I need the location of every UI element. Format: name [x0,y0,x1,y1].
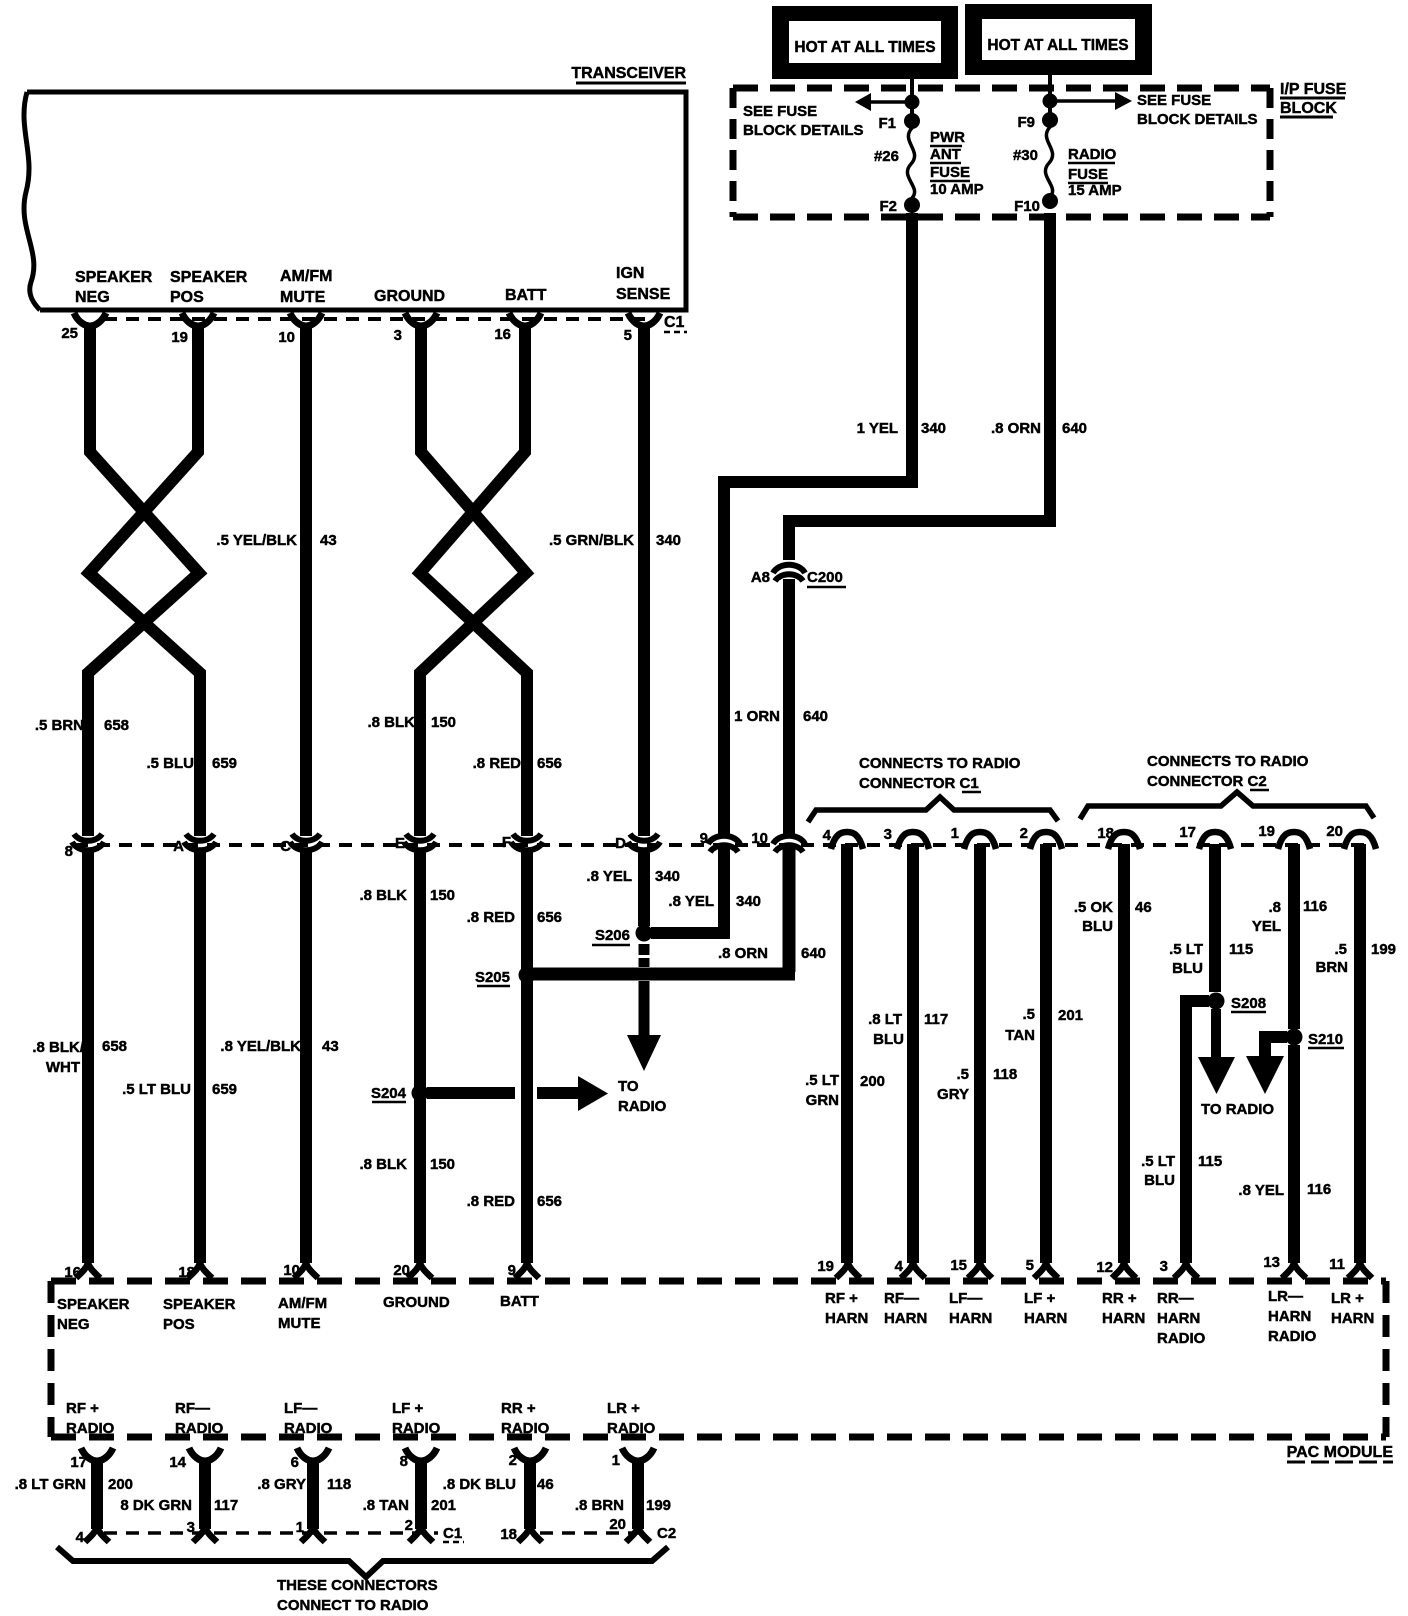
wire am/fm mute 43 (pin10) [300,327,312,836]
svg-text:.5 BLU: .5 BLU [146,755,194,772]
svg-text:S210: S210 [1308,1031,1343,1048]
svg-text:2: 2 [1020,825,1028,842]
svg-text:RADIO: RADIO [1068,146,1117,163]
svg-text:CONNECTOR C1: CONNECTOR C1 [859,775,979,792]
label .5 YEL/BLK 43 [216,532,336,549]
wire .8 BLK/WHT 658 (pin8 to PAC 16) [82,852,94,1263]
label .8 BRN 199 [575,1497,671,1514]
svg-text:HARN: HARN [825,1310,868,1327]
svg-text:5: 5 [1026,1257,1034,1274]
svg-text:.5: .5 [1022,1006,1035,1023]
label LR + HARN [1331,1290,1374,1327]
label CONNECTS TO RADIO CONNECTOR C2 [1147,753,1309,790]
svg-text:HOT AT ALL TIMES: HOT AT ALL TIMES [987,37,1128,54]
label SPEAKER NEG [75,269,153,306]
connector pin 16 [494,313,541,343]
svg-text:.5 LT: .5 LT [1169,941,1203,958]
wire from HOT box to F1 [910,79,914,120]
label .5 OK BLU 46 [1074,899,1152,935]
wire .5 LT BLU 115 (pin17 to S208) [1209,844,1221,992]
svg-text:LR—: LR— [1268,1288,1303,1305]
wire .5 BRN 199 (pin20 to 11) [1354,844,1366,1263]
svg-text:659: 659 [212,1081,237,1098]
label .8 YEL 340 (pin9 wire) [668,893,761,910]
label TO RADIO (shared) [618,1078,667,1115]
wire .8 ORN 640 (F10 to C200) [789,213,1050,560]
svg-text:.5 LT: .5 LT [1141,1153,1175,1170]
label TO RADIO (C2 arrows) [1201,1101,1274,1118]
svg-text:BLOCK: BLOCK [1280,100,1337,117]
svg-text:S208: S208 [1231,995,1266,1012]
connector C200 pin A8 [751,565,846,587]
junction dot (right arrow) [1043,94,1058,109]
svg-text:BLOCK DETAILS: BLOCK DETAILS [1137,111,1258,128]
svg-text:E: E [395,835,405,852]
svg-text:C: C [280,838,291,855]
svg-text:340: 340 [656,532,681,549]
svg-text:117: 117 [924,1011,948,1028]
connector pin C [280,834,322,855]
svg-text:11: 11 [1329,1256,1345,1273]
svg-text:SEE FUSE: SEE FUSE [743,103,817,120]
label RR + HARN [1102,1290,1145,1327]
svg-text:13: 13 [1263,1254,1280,1271]
label .5 BRN 199 [1316,941,1397,976]
svg-text:.5 LT: .5 LT [805,1072,839,1089]
arrow TO RADIO (down from S208) [1198,1009,1235,1094]
svg-text:RF—: RF— [175,1400,210,1417]
svg-text:GROUND: GROUND [374,288,445,305]
svg-text:10: 10 [751,830,768,847]
svg-text:115: 115 [1229,941,1253,958]
label .8 YEL 116 (lower) [1238,1181,1331,1199]
svg-text:.8 RED: .8 RED [467,909,516,926]
svg-text:RF +: RF + [66,1400,99,1417]
svg-text:2: 2 [509,1452,517,1469]
svg-text:BLU: BLU [873,1031,904,1048]
connector pin F [502,834,543,851]
brace C2 [1080,792,1374,819]
svg-text:.5: .5 [956,1066,969,1083]
connector pin 10 [278,313,322,346]
wire speaker pos 659 (pin19, crossing) [89,327,200,836]
svg-text:TRANSCEIVER: TRANSCEIVER [571,65,686,82]
svg-text:.8 BLK: .8 BLK [359,887,407,904]
connector PAC pin 3 [1160,1258,1198,1278]
label THESE CONNECTORS CONNECT TO RADIO [277,1577,438,1614]
wire S205 branch to pin 10 [533,968,795,981]
svg-text:.5 BRN: .5 BRN [35,717,84,734]
dashed line radio connector C2 [540,1531,650,1535]
svg-text:FUSE: FUSE [930,164,970,181]
wire S206 branch to pin 9 [651,848,724,933]
connector pin 19 (C2) [1258,823,1310,849]
svg-text:BLU: BLU [1082,918,1113,935]
svg-text:201: 201 [431,1497,456,1514]
label .5 GRY 118 [937,1066,1017,1103]
label SEE FUSE BLOCK DETAILS (right) [1137,92,1258,128]
label .8 YEL/BLK 43 [220,1038,338,1055]
svg-text:MUTE: MUTE [278,1315,321,1332]
svg-text:F: F [502,834,511,851]
wire .8 BLK 150 (pinE to PAC 20) [414,852,426,1263]
label .5 LT BLU 115 (upper) [1169,941,1253,977]
svg-text:340: 340 [655,868,680,885]
connector PAC pin 16 [64,1263,100,1281]
label .8 BLK 150 (lower) [359,1156,455,1173]
svg-text:18: 18 [178,1264,195,1281]
svg-text:16: 16 [64,1264,81,1281]
terminal F2 [879,197,920,215]
svg-text:CONNECTS TO RADIO: CONNECTS TO RADIO [1147,753,1309,770]
svg-text:116: 116 [1303,898,1327,915]
svg-text:115: 115 [1198,1153,1222,1170]
svg-text:8: 8 [65,843,73,860]
svg-text:RADIO: RADIO [392,1420,441,1437]
svg-text:CONNECT TO RADIO: CONNECT TO RADIO [277,1597,429,1614]
svg-text:2: 2 [405,1517,413,1534]
svg-text:NEG: NEG [57,1316,90,1333]
label .8 RED 656 [473,755,562,772]
svg-text:4: 4 [76,1529,85,1546]
connector row 2 dashed line [75,843,1374,847]
label .8 LT BLU 117 [868,1011,948,1048]
label LF- HARN [949,1290,992,1327]
svg-text:HARN: HARN [1157,1310,1200,1327]
svg-text:PWR: PWR [930,129,965,146]
svg-text:HARN: HARN [884,1310,927,1327]
svg-text:25: 25 [61,325,78,342]
connector pin 5 [624,313,660,344]
svg-text:656: 656 [537,755,562,772]
wire .8 YEL 340 (pinD to S206) [638,852,650,926]
svg-text:.8 ORN: .8 ORN [991,420,1041,437]
svg-text:GRN: GRN [806,1092,839,1109]
fuse #26 PWR ANT [874,128,915,198]
label PAC MODULE [1287,1444,1394,1462]
label .8 LT GRN 200 [15,1476,133,1493]
svg-text:20: 20 [609,1516,626,1533]
label I/P FUSE BLOCK [1280,81,1347,117]
svg-text:18: 18 [1097,825,1114,842]
svg-text:F9: F9 [1017,114,1035,131]
connector pin D [615,834,660,852]
svg-text:14: 14 [169,1454,186,1471]
svg-text:RF—: RF— [884,1290,919,1307]
label LF- RADIO [284,1400,333,1437]
connector pin 8 [65,834,104,860]
box I/P fuse block (dashed) [733,88,1270,217]
label SPEAKER POS [170,269,248,306]
wire ground 150 (pin3, crossing) [420,327,526,836]
svg-text:3: 3 [1160,1258,1168,1275]
label .8 BLK 150 [367,714,456,731]
wire from HOT box to F9 [1048,75,1052,119]
wire batt 656 (pin16, crossing) [420,327,527,836]
svg-text:LF +: LF + [392,1400,423,1417]
splice S204 [371,1085,429,1103]
terminal F9 [1017,112,1058,131]
label IGN SENSE [616,265,671,303]
svg-text:D: D [615,835,626,852]
arrow TO RADIO (right, from S204) [537,1076,608,1111]
svg-text:S205: S205 [475,969,510,986]
svg-text:.8 YEL/BLK: .8 YEL/BLK [220,1038,301,1055]
label RF- HARN [884,1290,927,1327]
svg-text:19: 19 [1258,823,1275,840]
splice S208 [1208,993,1267,1013]
connector pin 25 [61,313,106,342]
connector pin 18 (C2) [1097,825,1140,849]
splice S206 [592,925,653,946]
svg-text:RR—: RR— [1157,1290,1194,1307]
svg-text:BLOCK DETAILS: BLOCK DETAILS [743,122,864,139]
svg-text:TAN: TAN [1005,1027,1035,1044]
wire RF- radio lead (14 to 3) [169,1448,221,1542]
svg-text:C1: C1 [664,314,685,331]
svg-text:LR +: LR + [1331,1290,1364,1307]
svg-text:4: 4 [895,1258,904,1275]
svg-text:10: 10 [283,1262,300,1279]
label RR + RADIO [501,1400,550,1437]
svg-text:.8 RED: .8 RED [473,755,522,772]
svg-text:S204: S204 [371,1085,407,1102]
label 1 ORN 640 [734,708,828,725]
label RF + RADIO [66,1400,115,1437]
svg-text:RR +: RR + [501,1400,536,1417]
svg-text:CONNECTS TO RADIO: CONNECTS TO RADIO [859,755,1021,772]
label 1 YEL 340 [857,420,946,437]
svg-text:BATT: BATT [505,287,547,304]
box HOT AT ALL TIMES (right) [965,4,1152,75]
arrow TO RADIO (down, from S206) [627,981,661,1071]
box HOT AT ALL TIMES (left) [772,6,958,79]
svg-text:.8 YEL: .8 YEL [668,893,714,910]
svg-text:3: 3 [394,327,402,344]
svg-text:SPEAKER: SPEAKER [57,1296,130,1313]
connector PAC pin 20 [393,1262,432,1279]
label CONNECTS TO RADIO CONNECTOR C1 [859,755,1021,792]
label .8 YEL 340 (D wire) [586,868,680,885]
svg-text:IGN: IGN [616,265,644,282]
label .5 LT GRN 200 [805,1072,885,1109]
svg-text:659: 659 [212,755,237,772]
wire .5 LT GRN 200 (pin4 to 19) [841,844,853,1263]
svg-text:NEG: NEG [75,289,110,306]
svg-text:46: 46 [537,1476,554,1493]
label LF + RADIO [392,1400,441,1437]
brace THESE CONNECTORS [57,1547,668,1577]
svg-text:4: 4 [823,827,832,844]
label AM/FM MUTE (PAC) [278,1295,327,1332]
svg-text:118: 118 [327,1476,351,1493]
wire S208 branch to pin 3 (.5 LT BLU 115) [1186,1001,1209,1263]
svg-text:.8 GRY: .8 GRY [257,1476,306,1493]
svg-text:LR +: LR + [607,1400,640,1417]
connector pin E [395,834,436,852]
fuse #30 RADIO [1013,127,1053,197]
svg-text:199: 199 [1371,941,1396,958]
connector pin 4 (C1) [823,827,863,849]
connector PAC pin 19 [817,1258,860,1278]
wire LR+ radio lead (1 to 20) [609,1448,654,1542]
svg-text:3: 3 [884,826,892,843]
svg-text:150: 150 [430,1156,455,1173]
svg-text:THESE CONNECTORS: THESE CONNECTORS [277,1577,438,1594]
connector PAC pin 10 [283,1262,318,1279]
svg-text:9: 9 [700,830,708,847]
svg-text:118: 118 [993,1066,1017,1083]
svg-text:F10: F10 [1014,198,1040,215]
dashed line radio connector C1 [104,1531,438,1535]
label .8 DK BLU 46 [443,1476,554,1493]
svg-text:.8 ORN: .8 ORN [718,945,768,962]
svg-text:RADIO: RADIO [175,1420,224,1437]
svg-text:18: 18 [500,1526,517,1543]
connector PAC pin 4 [895,1258,925,1278]
svg-text:YEL: YEL [1252,918,1281,935]
svg-text:.8 LT GRN: .8 LT GRN [15,1476,86,1493]
svg-text:A8: A8 [751,569,770,586]
label SPEAKER POS (PAC) [163,1296,236,1333]
svg-text:658: 658 [102,1038,127,1055]
arrow TO RADIO (down from S210) [1246,1037,1287,1094]
wire D dashed below S206 [639,944,650,967]
svg-text:POS: POS [170,289,204,306]
transceiver box [24,92,686,310]
svg-text:RF +: RF + [825,1290,858,1307]
label .5 LT BLU 115 (lower) [1141,1153,1222,1189]
wire LF- radio lead (6 to 1) [291,1448,329,1542]
label RR- HARN RADIO [1157,1290,1206,1347]
svg-text:1 ORN: 1 ORN [734,708,780,725]
label LF + HARN [1024,1290,1067,1327]
label C2 (radio connector) [657,1525,676,1542]
wire .5 TAN 201 (pin2 to 5) [1040,844,1052,1263]
svg-text:TO: TO [618,1078,639,1095]
svg-text:GROUND: GROUND [383,1294,450,1311]
connector pin 2 (C1) [1020,825,1062,849]
wire pin10 lower (.8 ORN 640) [783,848,796,972]
connector pin 3 [394,313,437,344]
arrow to SEE FUSE (right) [1050,92,1132,110]
svg-text:BLU: BLU [1172,960,1203,977]
svg-text:1: 1 [951,825,959,842]
connector pin 3 (C1) [884,826,929,849]
connector PAC pin 15 [950,1257,992,1278]
svg-text:FUSE: FUSE [1068,166,1108,183]
svg-text:C200: C200 [807,569,843,586]
svg-text:20: 20 [393,1262,410,1279]
label PWR ANT FUSE 10 AMP [930,129,984,198]
label SEE FUSE BLOCK DETAILS (left) [743,103,864,139]
svg-text:.8 BLK: .8 BLK [359,1156,407,1173]
svg-text:116: 116 [1307,1181,1331,1198]
svg-text:SENSE: SENSE [616,286,671,303]
svg-text:150: 150 [431,714,456,731]
connector C1 dashed line (transceiver) [104,317,656,321]
svg-text:WHT: WHT [46,1059,80,1076]
svg-text:6: 6 [291,1454,299,1471]
svg-text:10: 10 [278,329,295,346]
svg-text:AM/FM: AM/FM [278,1295,327,1312]
svg-text:I/P FUSE: I/P FUSE [1280,81,1347,98]
label .5 LT BLU 659 [122,1081,237,1098]
svg-text:.5: .5 [1334,941,1347,958]
svg-text:.5 OK: .5 OK [1074,899,1113,916]
svg-text:MUTE: MUTE [280,289,326,306]
wire .8 YEL 116 (S210 to pin 13) [1288,1045,1300,1263]
label SPEAKER NEG (PAC) [57,1296,130,1333]
svg-text:.8 BLK/: .8 BLK/ [32,1039,85,1056]
splice S205 [475,967,536,987]
svg-text:656: 656 [537,909,562,926]
svg-text:10 AMP: 10 AMP [930,181,984,198]
svg-text:8 DK GRN: 8 DK GRN [120,1497,192,1514]
svg-text:BATT: BATT [500,1293,539,1310]
connector pin A [173,834,216,855]
svg-text:SPEAKER: SPEAKER [75,269,153,286]
label .8 YEL 116 (upper) [1252,898,1327,935]
svg-text:.8 LT: .8 LT [868,1011,902,1028]
label .8 BLK/WHT 658 [32,1038,127,1076]
svg-text:8: 8 [400,1453,408,1470]
svg-text:RADIO: RADIO [1157,1330,1206,1347]
svg-text:201: 201 [1058,1007,1083,1024]
svg-text:RADIO: RADIO [501,1420,550,1437]
svg-text:46: 46 [1135,899,1152,916]
svg-text:C1: C1 [443,1525,462,1542]
svg-text:.8 YEL: .8 YEL [1238,1182,1284,1199]
connector pin 10 [751,830,805,852]
label .8 ORN 640 (upper) [991,420,1087,437]
svg-text:19: 19 [817,1258,834,1275]
svg-text:LF—: LF— [284,1400,317,1417]
arrow to SEE FUSE (left) [855,93,912,111]
label .8 ORN 640 [718,945,826,962]
wire .5 GRY 118 (pin1 to 15) [974,844,986,1263]
svg-text:RADIO: RADIO [66,1420,115,1437]
svg-text:340: 340 [921,420,946,437]
svg-text:HARN: HARN [1268,1308,1311,1325]
wire S204 branch [427,1087,515,1099]
svg-text:656: 656 [537,1193,562,1210]
svg-text:PAC MODULE: PAC MODULE [1287,1444,1394,1461]
connector pin 20 (C2) [1326,823,1376,849]
wire 1 YEL 340 (F2 to pin 9) [724,213,912,835]
connector PAC pin 13 [1263,1254,1306,1278]
connector PAC pin 11 [1329,1256,1372,1278]
svg-text:16: 16 [494,326,511,343]
svg-text:.8 TAN: .8 TAN [363,1497,409,1514]
svg-text:SPEAKER: SPEAKER [170,269,248,286]
svg-text:CONNECTOR C2: CONNECTOR C2 [1147,773,1267,790]
svg-text:15: 15 [950,1257,967,1274]
svg-text:F2: F2 [879,198,897,215]
junction dot (left arrow) [905,95,920,110]
svg-text:HARN: HARN [1102,1310,1145,1327]
label GROUND [374,288,445,305]
svg-text:9: 9 [508,1262,516,1279]
label GROUND (PAC) [383,1294,450,1311]
wire .5 LT BLU 659 (pinA to PAC 18) [194,852,206,1263]
svg-text:A: A [173,838,184,855]
svg-text:HARN: HARN [1024,1310,1067,1327]
svg-text:.5 LT BLU: .5 LT BLU [122,1081,191,1098]
svg-text:BRN: BRN [1316,959,1349,976]
svg-text:C2: C2 [657,1525,676,1542]
svg-text:5: 5 [624,327,632,344]
